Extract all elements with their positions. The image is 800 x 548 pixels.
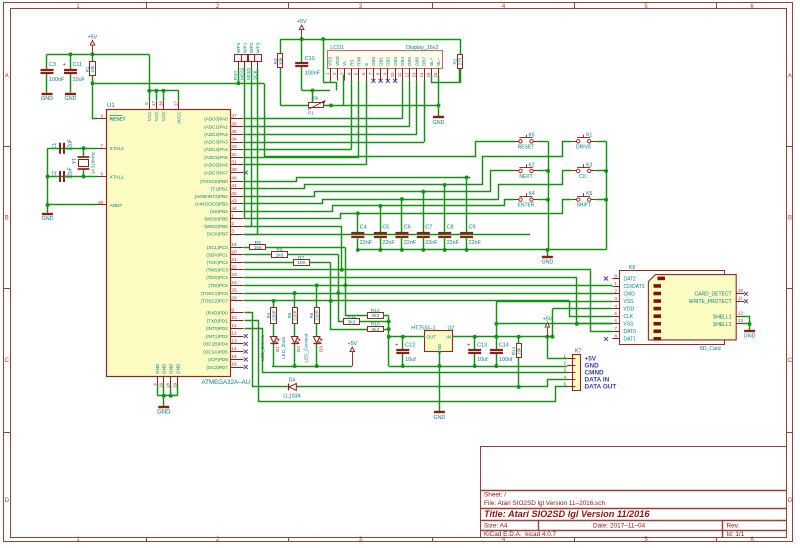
svg-text:1k8: 1k8 [297, 260, 305, 266]
svg-text:R3: R3 [273, 58, 278, 64]
svg-text:3k3: 3k3 [348, 319, 356, 325]
svg-text:K3: K3 [586, 162, 592, 168]
svg-text:R/W: R/W [357, 56, 362, 66]
svg-text:XTAL2: XTAL2 [110, 146, 125, 152]
svg-text:21: 21 [231, 257, 237, 263]
svg-text:K8: K8 [629, 265, 635, 271]
svg-text:(TDI)PC5: (TDI)PC5 [208, 283, 228, 288]
svg-text:Id: 1/1: Id: 1/1 [727, 531, 745, 538]
svg-text:GND: GND [175, 363, 180, 374]
svg-text:GND: GND [65, 96, 77, 102]
svg-text:DB7: DB7 [422, 57, 427, 66]
svg-text:(TOSC1)PC6: (TOSC1)PC6 [201, 291, 229, 296]
svg-text:BL+: BL+ [429, 57, 434, 66]
svg-text:D: D [5, 498, 10, 504]
svg-text:R10: R10 [371, 322, 380, 328]
svg-text:36: 36 [231, 121, 237, 127]
svg-text:11: 11 [397, 72, 402, 77]
svg-text:U2: U2 [448, 325, 455, 331]
svg-text:R6: R6 [309, 312, 314, 318]
svg-text:XTAL1: XTAL1 [110, 174, 125, 180]
svg-text:10: 10 [390, 72, 395, 77]
svg-text:14.318MHz: 14.318MHz [91, 152, 96, 174]
svg-text:(TXD)PD1: (TXD)PD1 [207, 318, 229, 323]
svg-text:26: 26 [231, 296, 237, 302]
svg-text:GND: GND [541, 260, 553, 266]
svg-text:(RXD)PD0: (RXD)PD0 [206, 311, 228, 316]
svg-text:GND: GND [161, 363, 166, 374]
svg-text:(SCK)PB7: (SCK)PB7 [207, 232, 229, 237]
svg-text:11: 11 [738, 296, 743, 301]
svg-text:C5: C5 [382, 225, 389, 231]
svg-text:30: 30 [231, 167, 237, 173]
svg-text:41: 41 [231, 183, 237, 189]
svg-text:29: 29 [98, 200, 103, 205]
svg-text:12: 12 [738, 311, 743, 316]
svg-text:C12: C12 [405, 342, 415, 348]
svg-text:LL103A: LL103A [283, 394, 301, 400]
svg-text:10uf: 10uf [477, 357, 488, 363]
svg-text:40: 40 [231, 176, 237, 182]
svg-text:10: 10 [231, 315, 237, 321]
svg-text:44: 44 [231, 206, 237, 212]
svg-text:22pF: 22pF [68, 139, 74, 150]
svg-text:33: 33 [231, 144, 237, 150]
svg-text:DB3: DB3 [393, 57, 398, 66]
svg-text:C10: C10 [305, 56, 315, 62]
svg-text:Title: Atari SIO2SD lgl Versio: Title: Atari SIO2SD lgl Version 11/2016 [484, 509, 650, 519]
svg-text:SHIFT: SHIFT [576, 203, 590, 209]
svg-text:(T1)PB1: (T1)PB1 [211, 186, 229, 191]
svg-text:CMND: CMND [585, 370, 605, 377]
svg-text:DB6: DB6 [415, 57, 420, 66]
svg-text:DAT0: DAT0 [624, 329, 637, 335]
svg-text:(T0/XCK)PB0: (T0/XCK)PB0 [200, 179, 228, 184]
svg-text:(ADC7)PA7: (ADC7)PA7 [204, 170, 228, 175]
svg-text:220R: 220R [292, 310, 297, 321]
svg-text:ENTER: ENTER [518, 203, 535, 209]
svg-text:3k3: 3k3 [371, 313, 379, 319]
svg-text:15: 15 [426, 72, 431, 77]
svg-text:3: 3 [231, 229, 234, 235]
svg-text:37: 37 [231, 114, 237, 120]
svg-text:5k: 5k [313, 96, 319, 102]
svg-text:1: 1 [231, 214, 234, 220]
svg-text:R7: R7 [298, 255, 304, 261]
svg-text:D: D [788, 498, 793, 504]
svg-text:10uf: 10uf [405, 357, 416, 363]
svg-text:C3: C3 [49, 62, 56, 68]
svg-text:13: 13 [231, 339, 237, 345]
svg-text:DATA IN: DATA IN [585, 377, 610, 384]
svg-text:RS: RS [349, 60, 354, 66]
svg-text:CLK: CLK [624, 314, 634, 320]
svg-text:U1: U1 [107, 103, 115, 109]
svg-text:GND: GND [744, 334, 756, 340]
svg-text:32: 32 [231, 152, 237, 158]
svg-text:(SS)PB4: (SS)PB4 [210, 209, 228, 214]
svg-text:WP3: WP3 [255, 42, 261, 53]
svg-text:17: 17 [151, 101, 156, 106]
svg-text:R8: R8 [276, 247, 282, 253]
svg-text:42: 42 [231, 191, 237, 197]
svg-text:(TOSC2)PC7: (TOSC2)PC7 [201, 299, 229, 304]
svg-text:15: 15 [231, 354, 237, 360]
svg-text:C: C [5, 358, 10, 364]
svg-text:(ADC2)PA2: (ADC2)PA2 [204, 132, 228, 137]
svg-text:SHELL1: SHELL1 [713, 314, 732, 320]
svg-text:B: B [5, 216, 9, 222]
svg-text:(INT0)PD2: (INT0)PD2 [206, 326, 228, 331]
svg-text:VL: VL [342, 60, 347, 66]
svg-text:KiCad E.D.A. kicad 4.0.7: KiCad E.D.A. kicad 4.0.7 [484, 531, 557, 538]
svg-text:(SDA)PC1: (SDA)PC1 [206, 252, 228, 257]
svg-text:22pF: 22pF [68, 167, 74, 178]
svg-text:10uF: 10uF [73, 77, 86, 83]
svg-text:+5V: +5V [297, 19, 307, 25]
svg-text:19: 19 [231, 242, 237, 248]
svg-text:+: + [63, 62, 66, 68]
svg-text:DRIVE: DRIVE [576, 144, 592, 150]
svg-text:VDD: VDD [624, 307, 635, 313]
svg-text:C8: C8 [447, 225, 454, 231]
svg-text:35: 35 [231, 129, 237, 135]
svg-text:WP4: WP4 [236, 42, 242, 53]
svg-text:P1: P1 [308, 111, 314, 117]
svg-text:(ADC4)PA4: (ADC4)PA4 [204, 147, 228, 152]
svg-text:K2: K2 [529, 162, 535, 168]
svg-text:10k: 10k [516, 347, 521, 355]
svg-text:D4: D4 [289, 378, 296, 384]
svg-text:+5V: +5V [585, 356, 597, 363]
svg-text:Date: 2017–11–04: Date: 2017–11–04 [593, 522, 646, 529]
svg-text:CARD_DETECT: CARD_DETECT [695, 292, 732, 298]
svg-text:Y1: Y1 [72, 158, 78, 164]
svg-text:(AIN1/OC0)PB3: (AIN1/OC0)PB3 [195, 201, 228, 206]
svg-text:22nF: 22nF [469, 240, 482, 246]
svg-text:C4: C4 [360, 225, 367, 231]
svg-text:10: 10 [738, 288, 743, 293]
svg-text:E: E [364, 63, 369, 66]
svg-text:VSS: VSS [328, 57, 333, 66]
svg-text:GND: GND [42, 216, 54, 222]
svg-text:VSS: VSS [624, 299, 635, 305]
svg-text:C13: C13 [477, 342, 487, 348]
svg-text:IN: IN [446, 335, 451, 340]
svg-text:11: 11 [231, 323, 236, 329]
svg-text:SD_Card: SD_Card [699, 346, 720, 352]
svg-text:24: 24 [231, 280, 237, 286]
svg-text:100nF: 100nF [305, 70, 321, 76]
svg-text:RESET: RESET [518, 144, 535, 150]
svg-text:12: 12 [231, 331, 237, 337]
svg-text:R5: R5 [287, 312, 292, 318]
svg-text:K6: K6 [529, 133, 535, 139]
svg-text:(OC1B)PD4: (OC1B)PD4 [203, 342, 228, 347]
svg-text:(MISO)PB6: (MISO)PB6 [204, 224, 228, 229]
svg-text:BL–: BL– [436, 57, 441, 66]
svg-text:220R: 220R [314, 310, 319, 321]
svg-text:43: 43 [231, 198, 237, 204]
svg-text:(ADC6)PA6: (ADC6)PA6 [204, 163, 228, 168]
svg-text:R1: R1 [85, 66, 90, 72]
svg-text:D1: D1 [275, 346, 280, 352]
svg-text:27: 27 [174, 101, 179, 106]
svg-text:(ADC0)PA0: (ADC0)PA0 [204, 117, 228, 122]
svg-text:SHELL2: SHELL2 [713, 322, 732, 328]
svg-text:R12: R12 [371, 308, 380, 314]
svg-text:100nf: 100nf [499, 357, 513, 363]
svg-text:DATA OUT: DATA OUT [585, 384, 617, 391]
svg-text:GND: GND [155, 363, 160, 374]
svg-text:(ICP)PD6: (ICP)PD6 [208, 357, 228, 362]
svg-text:(OC2)PD7: (OC2)PD7 [206, 365, 228, 370]
svg-text:(ADC3)PA3: (ADC3)PA3 [204, 140, 228, 145]
svg-text:LCD1: LCD1 [330, 45, 344, 51]
svg-text:22nF: 22nF [360, 240, 373, 246]
svg-text:(INT1)PD3: (INT1)PD3 [206, 334, 228, 339]
svg-text:VDD: VDD [335, 56, 340, 66]
svg-text:100nF: 100nF [49, 77, 65, 83]
svg-text:C1: C1 [52, 143, 58, 150]
svg-text:220R: 220R [271, 310, 276, 321]
svg-text:GND: GND [41, 96, 53, 102]
svg-text:R9: R9 [255, 240, 261, 246]
svg-text:1k8: 1k8 [276, 253, 284, 259]
svg-text:GND: GND [585, 363, 600, 370]
svg-text:C14: C14 [499, 342, 509, 348]
svg-text:(TMS)PC3: (TMS)PC3 [206, 268, 228, 273]
svg-text:(TCK)PC2: (TCK)PC2 [207, 260, 229, 265]
svg-text:13: 13 [412, 72, 417, 77]
svg-text:R11: R11 [347, 314, 356, 320]
svg-text:10k: 10k [90, 65, 95, 73]
svg-text:2: 2 [231, 221, 234, 227]
svg-text:A: A [5, 74, 9, 80]
svg-text:Display_16x2: Display_16x2 [406, 45, 438, 51]
svg-text:GND: GND [433, 120, 445, 126]
svg-text:WRITE_PROTECT: WRITE_PROTECT [689, 299, 732, 305]
svg-text:RESET: RESET [110, 117, 126, 123]
svg-text:B: B [788, 216, 792, 222]
svg-text:22nF: 22nF [425, 240, 438, 246]
svg-text:C6: C6 [404, 225, 411, 231]
svg-text:OUT: OUT [427, 335, 437, 340]
svg-text:(MOSI)PB5: (MOSI)PB5 [204, 217, 228, 222]
svg-text:(TDO)PC4: (TDO)PC4 [206, 275, 228, 280]
svg-text:R2: R2 [452, 58, 457, 64]
svg-text:25: 25 [231, 288, 237, 294]
svg-text:31: 31 [231, 160, 237, 166]
svg-text:C2: C2 [52, 171, 58, 178]
svg-text:NEXT: NEXT [519, 174, 532, 180]
svg-text:22: 22 [231, 264, 237, 270]
svg-text:270: 270 [458, 57, 463, 65]
svg-text:Rev:: Rev: [727, 522, 740, 529]
svg-text:(OC1A)PD5: (OC1A)PD5 [203, 349, 228, 354]
svg-text:CD/DAT3: CD/DAT3 [624, 284, 645, 290]
svg-text:34: 34 [231, 137, 237, 143]
svg-text:C7: C7 [425, 225, 432, 231]
svg-text:DB0: DB0 [371, 57, 376, 66]
svg-text:R4: R4 [266, 312, 271, 318]
svg-text:ATMEGA32A–AU: ATMEGA32A–AU [202, 379, 251, 386]
svg-text:GND: GND [168, 363, 173, 374]
svg-text:K4: K4 [529, 191, 535, 197]
svg-text:C9: C9 [469, 225, 476, 231]
svg-text:VSS: VSS [624, 322, 635, 328]
svg-text:DB2: DB2 [386, 57, 391, 66]
svg-text:LED_Žlutá: LED_Žlutá [279, 337, 286, 359]
svg-text:22nF: 22nF [382, 240, 395, 246]
svg-text:File: Atari SIO2SD lgl Version: File: Atari SIO2SD lgl Version 11–2016.s… [484, 500, 605, 507]
svg-text:+5V: +5V [88, 35, 98, 41]
svg-text:14: 14 [419, 72, 424, 77]
svg-text:DB5: DB5 [407, 57, 412, 66]
svg-text:(AIN0/INT2)PB2: (AIN0/INT2)PB2 [195, 194, 229, 199]
svg-text:HT7533–1: HT7533–1 [411, 325, 435, 331]
svg-text:GND: GND [157, 410, 171, 416]
svg-text:C0..: C0.. [579, 174, 588, 180]
svg-text:R14: R14 [511, 347, 516, 356]
svg-text:C: C [788, 358, 793, 364]
svg-text:(ADC5)PA5: (ADC5)PA5 [204, 155, 228, 160]
svg-text:(ADC1)PA1: (ADC1)PA1 [204, 124, 228, 129]
svg-text:DB4: DB4 [400, 57, 405, 66]
svg-text:Size: A4: Size: A4 [484, 522, 508, 529]
svg-text:VCC: VCC [147, 111, 152, 121]
svg-text:AREF: AREF [110, 203, 123, 209]
svg-text:38: 38 [158, 101, 163, 106]
svg-text:22nF: 22nF [447, 240, 460, 246]
svg-text:+5V: +5V [348, 341, 358, 347]
svg-text:1k8: 1k8 [254, 245, 262, 251]
svg-text:LED_Červená: LED_Červená [302, 333, 308, 362]
svg-text:10k: 10k [278, 57, 283, 65]
svg-text:A: A [788, 74, 792, 80]
svg-text:16: 16 [433, 72, 438, 77]
svg-text:K7: K7 [575, 348, 581, 354]
svg-text:9: 9 [231, 308, 234, 314]
svg-text:Sheet: /: Sheet: / [484, 491, 506, 498]
svg-text:16: 16 [231, 362, 237, 368]
svg-text:DAT2: DAT2 [624, 276, 637, 282]
svg-text:VCC: VCC [161, 111, 166, 121]
svg-text:14: 14 [231, 346, 237, 352]
svg-text:CMD: CMD [624, 291, 636, 297]
svg-text:+: + [467, 342, 470, 348]
svg-text:D3: D3 [318, 346, 323, 352]
svg-text:DB1: DB1 [378, 57, 383, 66]
svg-text:C11: C11 [73, 62, 83, 68]
svg-text:13: 13 [738, 318, 743, 323]
svg-text:D2: D2 [296, 346, 301, 352]
svg-text:20: 20 [231, 249, 237, 255]
svg-text:WP2: WP2 [249, 42, 255, 53]
svg-text:K1: K1 [586, 133, 592, 139]
svg-text:WP1: WP1 [243, 42, 249, 53]
svg-text:22nF: 22nF [404, 240, 417, 246]
svg-text:23: 23 [231, 272, 237, 278]
svg-text:+: + [395, 342, 398, 348]
svg-text:3k3: 3k3 [371, 327, 379, 333]
svg-text:K5: K5 [586, 191, 592, 197]
svg-text:GND: GND [433, 415, 445, 421]
svg-text:DAT1: DAT1 [624, 337, 637, 343]
svg-text:VCC: VCC [154, 111, 159, 121]
svg-text:AVCC: AVCC [176, 111, 181, 124]
svg-text:12: 12 [404, 72, 409, 77]
svg-text:+5V: +5V [543, 317, 553, 323]
svg-text:(SCL)PC0: (SCL)PC0 [207, 245, 228, 250]
